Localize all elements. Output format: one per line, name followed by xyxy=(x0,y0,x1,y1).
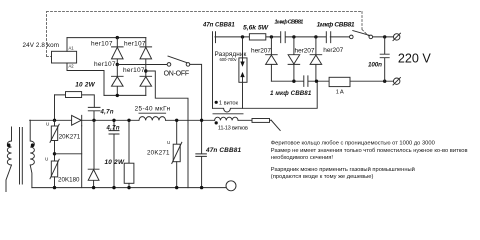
capacitor 47n CBB81 (top left, series to HV rail) xyxy=(213,32,216,109)
varistor 20K271 #1 xyxy=(54,120,56,126)
diode her107 D4 (col2 bottom) xyxy=(140,65,152,96)
wire col2-mid bracket down to bottom rail xyxy=(146,71,188,188)
svg-text:5,6k 5W: 5,6k 5W xyxy=(243,25,269,32)
wire bridge bottom rail xyxy=(104,94,146,96)
svg-text:220 V: 220 V xyxy=(398,51,432,65)
node her207 D7 top xyxy=(314,35,317,38)
node phase dot left xyxy=(7,143,11,147)
fuse box on secondary rail xyxy=(252,119,270,123)
svg-text:4,7n: 4,7n xyxy=(100,109,114,115)
wire A2 down and right to bridge bottom rail xyxy=(67,63,104,95)
svg-text:100n: 100n xyxy=(368,62,382,69)
node mid rail x=201.6 xyxy=(200,119,203,122)
svg-text:10 2W: 10 2W xyxy=(75,82,95,89)
node bridge mid col2 xyxy=(144,69,147,72)
node bottom R2 xyxy=(127,186,130,189)
diode her207 D7 xyxy=(310,37,322,81)
svg-text:A2: A2 xyxy=(69,63,75,68)
node secondary phase dot xyxy=(215,121,218,124)
terminal 220V bottom xyxy=(394,78,400,84)
wire primary loop (1 vitok) xyxy=(213,82,318,112)
wire HV bottom rail xyxy=(271,80,393,82)
svg-text:her107: her107 xyxy=(91,40,113,47)
svg-text:24V 2.8 kom: 24V 2.8 kom xyxy=(23,42,60,49)
node her207 D5 top xyxy=(270,35,273,38)
node bottom cap2 xyxy=(112,186,115,189)
svg-text:U: U xyxy=(167,140,170,145)
svg-text:her107: her107 xyxy=(123,67,145,74)
switch 220V blade xyxy=(353,31,370,36)
svg-text:11-13 витков: 11-13 витков xyxy=(218,126,248,132)
switch ON-OFF contact right xyxy=(186,63,190,67)
diode her107 D2 (col2 top) xyxy=(140,38,152,65)
svg-text:her107: her107 xyxy=(94,61,116,68)
svg-text:1 мкф СВВ81: 1 мкф СВВ81 xyxy=(270,90,312,97)
svg-text:Размер не имеет значения тольк: Размер не имеет значения только чтоб пом… xyxy=(271,148,468,154)
node D7 bottom xyxy=(315,80,318,83)
diode D down (x=93.5) xyxy=(88,120,99,187)
svg-text:her207: her207 xyxy=(295,47,315,54)
node 100n bottom xyxy=(383,80,386,83)
wire from switch down to main rail xyxy=(190,64,202,120)
capacitor 1mkf CBB81 #2 xyxy=(326,32,330,43)
wire diode-bar column down xyxy=(81,126,83,188)
capacitor 1 mkf CBB81 (series bottom) xyxy=(304,76,308,87)
resistor 10 2W #2 xyxy=(128,120,130,163)
node bottom varistor col xyxy=(53,186,56,189)
svg-text:her207: her207 xyxy=(323,47,343,54)
svg-text:A1: A1 xyxy=(69,45,75,50)
spark gap (razryadnik) xyxy=(242,37,244,58)
diode her107 D1 (col1 top) xyxy=(112,38,124,65)
svg-text:1 виток: 1 виток xyxy=(219,100,239,106)
node bottom cap47n xyxy=(200,186,203,189)
core transformer T1 xyxy=(20,128,23,185)
inductor 25-40 mkGn xyxy=(139,117,166,121)
wire main rail start xyxy=(29,119,31,121)
terminal 220V top xyxy=(394,34,400,40)
svg-text:1 A: 1 A xyxy=(336,90,344,96)
diode her207 D5 xyxy=(266,37,278,81)
wire bottom rail xyxy=(32,187,226,189)
svg-text:47n СВВ81: 47n СВВ81 xyxy=(205,147,241,154)
svg-text:20K271: 20K271 xyxy=(59,134,81,141)
svg-text:необходимого сечения!: необходимого сечения! xyxy=(271,155,334,161)
node bottom diode col xyxy=(92,186,95,189)
connector hook at bottom rail end xyxy=(226,181,236,191)
transformer T1 input: left winding xyxy=(6,127,12,192)
resistor 10 2W #1 xyxy=(55,95,95,107)
node bridge top col1 xyxy=(116,36,119,39)
wire HV top rail xyxy=(215,36,393,38)
switch ON-OFF contact left xyxy=(167,63,171,67)
node primary phase dot xyxy=(215,101,218,104)
node bridge mid col1 xyxy=(116,63,119,66)
svg-text:47п СВВ81: 47п СВВ81 xyxy=(202,23,235,29)
switch 220V contact right xyxy=(369,35,373,39)
svg-text:600-700v: 600-700v xyxy=(220,57,238,62)
svg-text:25-40 мкГн: 25-40 мкГн xyxy=(135,106,171,113)
switch blade open (output) xyxy=(271,120,280,131)
svg-text:4,7n: 4,7n xyxy=(106,125,120,131)
svg-text:ON-OFF: ON-OFF xyxy=(164,70,190,77)
switch 220V contact left xyxy=(350,35,354,39)
capacitor 4,7n #1 xyxy=(88,107,100,120)
diode her207 D6 (reversed) xyxy=(288,37,300,81)
node her207 D6 top xyxy=(292,35,295,38)
wire bridge top rail xyxy=(67,37,146,39)
svg-text:Разрядник можно применить газо: Разрядник можно применить газовый промыш… xyxy=(271,166,415,173)
svg-text:1мкф СВВ81: 1мкф СВВ81 xyxy=(274,19,303,26)
wire corner resistor rail down to main rail xyxy=(54,95,56,120)
node bridge bottom col1 xyxy=(116,94,119,97)
diode D main (on rail) xyxy=(72,115,82,125)
node varistor col top xyxy=(53,119,56,122)
svg-text:20K271: 20K271 xyxy=(147,150,170,157)
svg-text:her107: her107 xyxy=(124,40,146,47)
wire main rail xyxy=(30,119,271,121)
node cap1 rail xyxy=(92,119,95,122)
winding secondary 11-13 vitkov xyxy=(215,117,238,120)
node cap2 top xyxy=(112,119,115,122)
node varistor mid xyxy=(54,141,56,162)
capacitor 100n xyxy=(380,37,389,81)
wire bridge mid rail to switch xyxy=(117,64,167,66)
fuse 1 A xyxy=(329,77,350,86)
svg-text:20K180: 20K180 xyxy=(58,177,80,184)
core inductor xyxy=(139,112,166,114)
capacitor 47n CBB81 (mid bottom) xyxy=(196,120,207,187)
capacitor 4,7n #2 xyxy=(109,120,119,187)
varistor 20K180 xyxy=(51,161,57,177)
switch ON-OFF blade xyxy=(168,56,187,63)
diode her107 D3 (col1 bottom) xyxy=(112,65,124,96)
svg-text:U: U xyxy=(45,156,48,161)
svg-text:(продаются везде к тому же деш: (продаются везде к тому же дешевые) xyxy=(271,174,374,180)
svg-text:10 2W: 10 2W xyxy=(105,159,125,166)
node D6 bottom xyxy=(292,80,295,83)
relay K1 coil box xyxy=(52,51,77,63)
varistor 20K271 #2 xyxy=(176,120,178,144)
node phase dot right xyxy=(31,143,35,147)
mechanical link dashed wire from relay to 220V switch xyxy=(47,12,369,57)
svg-text:Феритовое кольцо любое с прони: Феритовое кольцо любое с проницаемостью … xyxy=(271,141,435,147)
transformer T1 right winding xyxy=(30,120,34,187)
svg-text:U: U xyxy=(46,122,49,127)
svg-text:1мкф СВВ81: 1мкф СВВ81 xyxy=(317,22,355,29)
core output transformer xyxy=(213,113,243,115)
node bottom varistor3 xyxy=(175,186,178,189)
resistor 5,6k 5W xyxy=(249,34,265,40)
node 100n top xyxy=(383,35,386,38)
svg-text:her207: her207 xyxy=(251,47,271,54)
wire A1 up to bridge top rail xyxy=(66,38,68,52)
node spark gap top xyxy=(241,35,244,38)
capacitor 1mkf CBB81 #1 xyxy=(281,32,286,43)
wire varistor mid to diode column xyxy=(55,153,82,155)
